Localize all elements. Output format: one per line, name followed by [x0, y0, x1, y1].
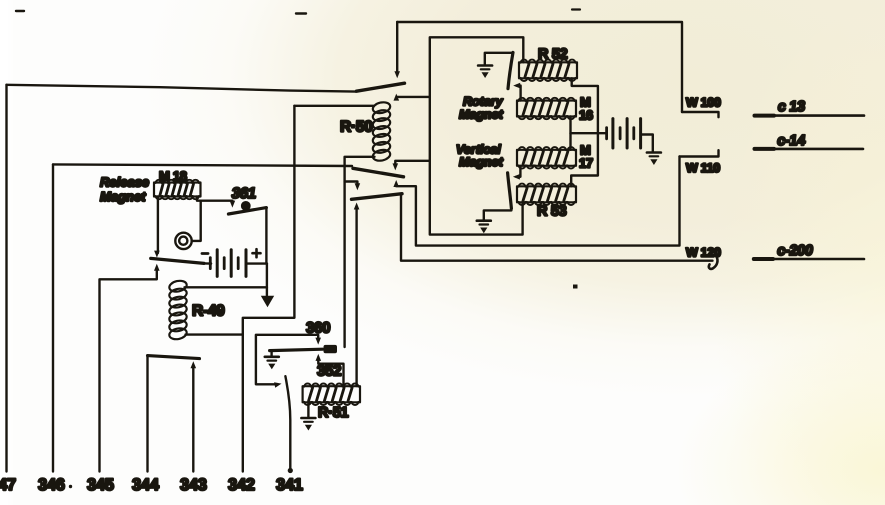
wire c200 lead: [754, 258, 864, 261]
arrow 345 contact arrow up: [154, 264, 160, 271]
contact release armature bar: [151, 258, 204, 263]
node stray mark top: [296, 12, 306, 14]
wire R52 right to battery bus: [571, 78, 598, 186]
wire M16 right to M17 right: [569, 117, 571, 150]
node 346 terminal riser: [52, 164, 54, 471]
wire R-49 top to supply: [185, 286, 267, 288]
wire battery B2 to ground: [641, 135, 653, 153]
svg-text:47: 47: [0, 476, 16, 494]
resistor R-50 coil: [372, 101, 391, 115]
node 360 contact heel: [324, 345, 338, 353]
battery B2 main: [605, 128, 608, 139]
svg-text:c-200: c-200: [776, 243, 814, 259]
label battery minus: [202, 252, 208, 255]
wire branch to contact B arrow: [345, 182, 358, 186]
ground battery B2: [647, 151, 661, 154]
arrow 360 arrow down: [315, 338, 321, 345]
resistor R-49 coil: [168, 279, 187, 293]
contact rotary interrupter lever: [508, 52, 513, 88]
svg-text:R-49: R-49: [192, 303, 225, 320]
wire vertical interrupter ground lead: [484, 208, 512, 221]
wire M18 left to armature arrow: [157, 197, 159, 254]
wire R-51 left ground lead: [307, 402, 309, 417]
arrow top contact arrow up: [394, 94, 400, 101]
contact off-normal bar top: [357, 83, 405, 91]
node 341 terminal spring: [285, 376, 290, 471]
contact A bar: [353, 168, 404, 177]
arrow contact B arrow down: [355, 183, 361, 190]
wire R-50 bottom jog: [345, 157, 375, 347]
wire R-49 bottom to 342 riser: [186, 333, 243, 335]
wire R-50 top feed: [294, 105, 374, 107]
svg-text:W 120: W 120: [686, 246, 721, 260]
wire M16 left to interrupter: [517, 86, 521, 101]
node 344 terminal riser and contact bar: [146, 356, 148, 472]
svg-text:c 13: c 13: [777, 99, 806, 115]
arrow armature arrow down: [154, 251, 160, 258]
arrow contact A arrow up: [393, 180, 399, 187]
wire c13 lead: [755, 114, 865, 117]
svg-text:c-14: c-14: [776, 133, 806, 149]
wire W120 hook: [709, 257, 718, 269]
svg-text:360: 360: [306, 320, 330, 337]
arrow 352 arrow up: [316, 354, 322, 361]
svg-text:361: 361: [231, 185, 258, 202]
label battery plus: [253, 252, 261, 255]
arrow vertical interrupter arrow: [513, 174, 520, 180]
svg-text:17: 17: [579, 156, 593, 171]
lamp supervisory: [192, 201, 201, 241]
battery B1 release circuit: [209, 262, 212, 264]
contact 360 bar: [270, 349, 323, 350]
wire 361 to battery plus: [265, 208, 267, 264]
contact B bar: [352, 194, 403, 200]
svg-text:R 53: R 53: [537, 204, 567, 220]
arrow 343 contact arrow up: [191, 361, 197, 368]
wire M18 right to contact 361: [197, 197, 232, 201]
wire contact B arm to R-51: [355, 207, 357, 386]
svg-text:352: 352: [317, 363, 341, 380]
svg-text:R 52: R 52: [538, 47, 568, 63]
arrow supply arrow big: [261, 296, 274, 307]
wire W100 stub: [682, 112, 719, 117]
svg-text:341: 341: [276, 476, 303, 494]
wire 347 horizontal run: [7, 85, 357, 92]
svg-text:343: 343: [180, 476, 207, 494]
svg-text:Magnet: Magnet: [100, 189, 146, 204]
wire battery B2 feed: [571, 132, 607, 134]
wire rotary interrupter ground lead: [485, 53, 513, 65]
svg-text:342: 342: [228, 476, 255, 494]
node 345 terminal riser: [100, 269, 157, 472]
svg-text:R·51: R·51: [318, 405, 348, 421]
resistor R 52 coil: [519, 62, 577, 78]
coil M16 rotary magnet: [517, 101, 576, 117]
svg-text:346: 346: [38, 476, 65, 494]
wire 346 horizontal run to contact: [53, 164, 352, 166]
svg-text:R·50: R·50: [340, 119, 372, 136]
arrow rotary interrupter arrow: [513, 83, 520, 89]
svg-text:344: 344: [132, 476, 160, 494]
ground rotary interrupter: [478, 64, 492, 67]
svg-text:345: 345: [87, 476, 114, 494]
svg-text:W 110: W 110: [686, 161, 720, 175]
arrow 361 arrow down: [231, 201, 233, 203]
coil M17 vertical magnet: [517, 150, 576, 166]
wire 360 link: [256, 335, 318, 385]
wire top feed from outer loop: [396, 22, 398, 73]
wire c14 lead: [755, 148, 864, 151]
svg-text:Magnet: Magnet: [459, 108, 504, 122]
ground R-51: [301, 417, 315, 420]
wire inner frame: [430, 37, 524, 234]
svg-text:Release: Release: [100, 175, 149, 190]
ground vertical interrupter: [477, 219, 491, 222]
node stray mark dot: [573, 285, 578, 289]
wire W110 stub: [680, 150, 719, 156]
arrow contact A arrow down: [393, 163, 399, 170]
wire 360 bar ground lead: [270, 351, 272, 357]
resistor R-51 coil: [303, 386, 360, 402]
arrow 341 spring arrow: [274, 382, 281, 388]
wire battery plus down to arrow: [266, 264, 268, 296]
contact vertical interrupter lever: [508, 173, 512, 209]
resistor R 53 coil: [517, 186, 576, 202]
contact 361 bar: [228, 208, 266, 214]
node 361 pivot dot: [241, 201, 251, 211]
node 347 terminal riser: [5, 85, 7, 472]
wire M17 left to interrupter: [516, 166, 520, 177]
arrow top contact arrow down: [394, 71, 400, 78]
svg-text:W 100: W 100: [686, 96, 721, 110]
node 343 terminal riser: [192, 366, 194, 472]
svg-text:16: 16: [579, 108, 593, 123]
coil M18: [154, 183, 201, 197]
svg-text:Magnet: Magnet: [459, 155, 504, 169]
svg-text:Rotary: Rotary: [463, 95, 504, 109]
wire contact B to W120 run: [401, 194, 713, 261]
wire top contact to inner frame: [398, 96, 430, 98]
arrow contact B arrow up: [354, 203, 360, 210]
ground 360 bar: [265, 355, 279, 358]
wire outer top loop: [397, 22, 682, 112]
node 342 terminal riser to R-50 top: [243, 106, 295, 472]
wire contact A to W110 run: [396, 157, 679, 246]
wire contact A feed from inner frame: [395, 161, 430, 166]
